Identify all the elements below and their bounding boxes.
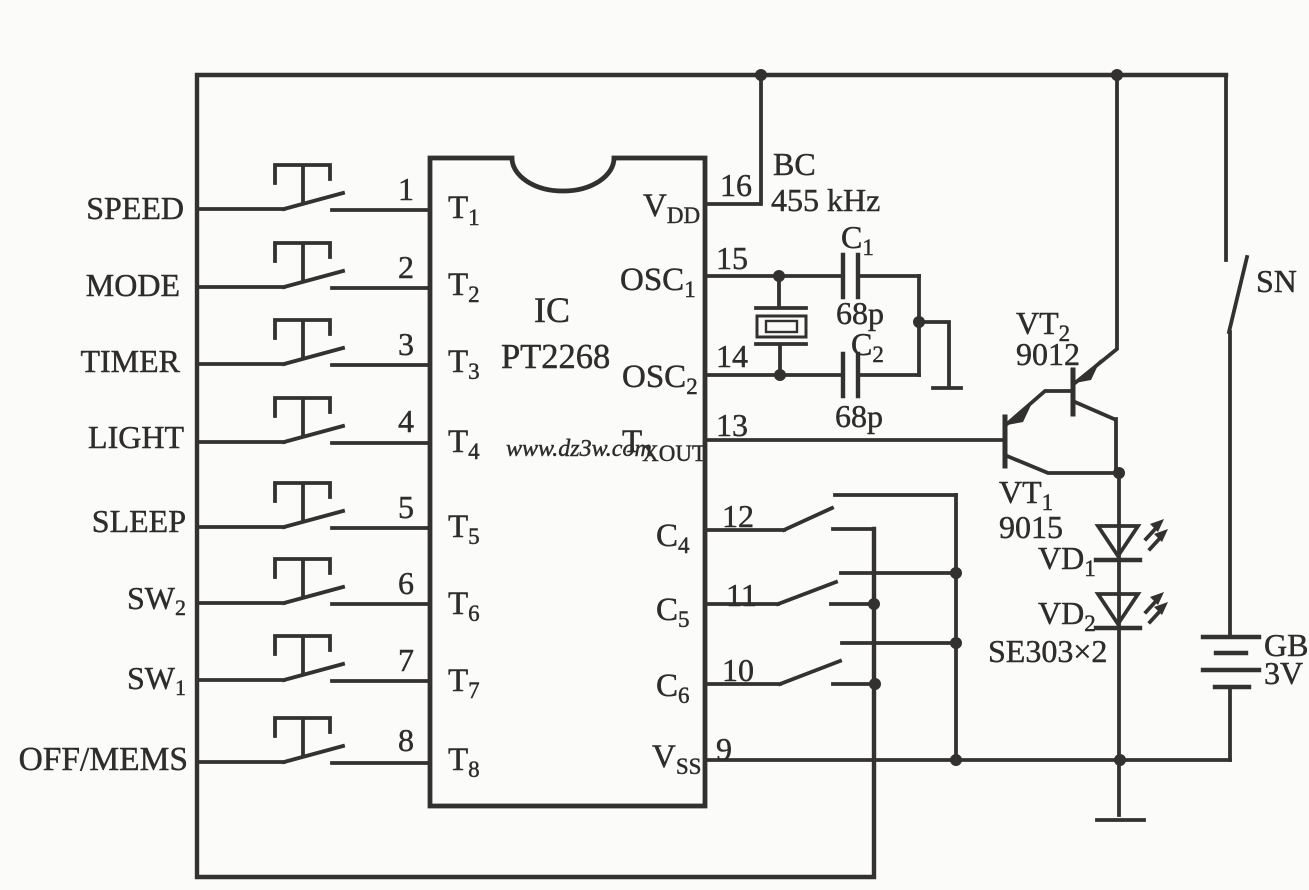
svg-text:OFF/MEMS: OFF/MEMS bbox=[19, 741, 188, 778]
svg-text:5: 5 bbox=[398, 489, 414, 525]
svg-text:4: 4 bbox=[398, 403, 414, 439]
svg-text:1: 1 bbox=[398, 171, 414, 207]
svg-text:T5: T5 bbox=[448, 509, 480, 549]
svg-text:BC: BC bbox=[773, 146, 816, 182]
svg-text:SN: SN bbox=[1256, 263, 1297, 299]
svg-text:LIGHT: LIGHT bbox=[88, 419, 184, 455]
svg-text:7: 7 bbox=[398, 642, 414, 678]
svg-text:9012: 9012 bbox=[1016, 336, 1080, 372]
svg-text:T4: T4 bbox=[448, 424, 480, 464]
svg-text:VD2: VD2 bbox=[1038, 595, 1096, 636]
svg-text:10: 10 bbox=[722, 652, 754, 688]
svg-text:2: 2 bbox=[398, 249, 414, 285]
svg-text:455 kHz: 455 kHz bbox=[771, 182, 880, 218]
svg-text:C4: C4 bbox=[656, 518, 690, 558]
svg-text:T2: T2 bbox=[448, 267, 480, 307]
svg-text:9: 9 bbox=[716, 731, 732, 767]
svg-text:VD1: VD1 bbox=[1038, 540, 1096, 581]
svg-text:SPEED: SPEED bbox=[86, 190, 184, 226]
svg-text:14: 14 bbox=[716, 338, 748, 374]
svg-text:T8: T8 bbox=[448, 742, 480, 782]
svg-text:8: 8 bbox=[398, 722, 414, 758]
svg-text:MODE: MODE bbox=[86, 267, 180, 303]
svg-text:T3: T3 bbox=[448, 344, 480, 384]
svg-text:3V: 3V bbox=[1264, 655, 1303, 691]
svg-text:11: 11 bbox=[726, 577, 757, 613]
svg-text:SW1: SW1 bbox=[127, 660, 186, 700]
svg-text:OSC2: OSC2 bbox=[622, 359, 698, 399]
svg-text:3: 3 bbox=[398, 326, 414, 362]
svg-text:IC: IC bbox=[534, 290, 570, 330]
svg-text:13: 13 bbox=[716, 407, 748, 443]
svg-text:VDD: VDD bbox=[643, 188, 700, 228]
svg-text:SLEEP: SLEEP bbox=[92, 503, 186, 539]
svg-text:C5: C5 bbox=[656, 592, 690, 632]
svg-text:12: 12 bbox=[722, 498, 754, 534]
svg-text:SE303×2: SE303×2 bbox=[988, 633, 1107, 669]
svg-text:T6: T6 bbox=[448, 586, 480, 626]
svg-text:SW2: SW2 bbox=[127, 580, 186, 620]
svg-text:T1: T1 bbox=[448, 190, 480, 230]
svg-text:PT2268: PT2268 bbox=[501, 338, 610, 376]
svg-text:68p: 68p bbox=[835, 398, 883, 434]
svg-text:T7: T7 bbox=[448, 663, 480, 703]
svg-text:C6: C6 bbox=[656, 668, 690, 708]
svg-text:15: 15 bbox=[716, 240, 748, 276]
svg-text:OSC1: OSC1 bbox=[620, 262, 696, 302]
svg-text:6: 6 bbox=[398, 565, 414, 601]
svg-text:C1: C1 bbox=[841, 219, 874, 260]
svg-text:C2: C2 bbox=[851, 326, 884, 367]
svg-text:TIMER: TIMER bbox=[80, 343, 180, 379]
svg-text:VSS: VSS bbox=[652, 739, 701, 779]
svg-text:16: 16 bbox=[720, 167, 752, 203]
svg-text:www.dz3w.com: www.dz3w.com bbox=[506, 436, 652, 462]
